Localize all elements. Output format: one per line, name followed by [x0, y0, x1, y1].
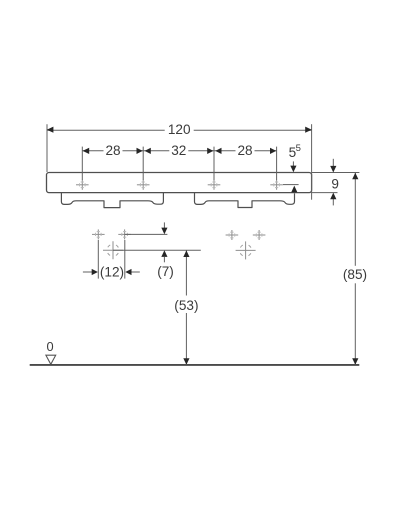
dimension 120: extension line right	[311, 124, 313, 200]
dimension (12): left arrow	[83, 271, 92, 273]
dimension (53): bottom arrowhead	[183, 358, 189, 365]
dimension (85): top arrowhead	[352, 173, 358, 180]
tap hole 2	[137, 180, 150, 190]
datum triangle	[46, 355, 56, 364]
svg-text:28: 28	[105, 143, 120, 158]
dimension 9: down arrow	[332, 159, 334, 166]
dim 32/28 arrowhead pair at hole 3	[207, 148, 213, 154]
svg-text:32: 32	[171, 143, 186, 158]
svg-text:28: 28	[237, 143, 252, 158]
svg-text:0: 0	[46, 339, 53, 354]
label 28 right	[236, 143, 255, 158]
left bowl profile	[61, 193, 163, 208]
dimension 120: right arrowhead	[305, 127, 312, 133]
dimension 5.5 down arrow	[292, 161, 294, 166]
mounting hole large right	[236, 241, 256, 259]
dimension 9: up arrow	[332, 199, 334, 205]
right bowl profile	[195, 193, 295, 208]
tap hole leader line	[283, 184, 299, 186]
mounting hole small right A	[226, 230, 239, 240]
dimension 28/32/28: line	[82, 150, 276, 152]
dimension (12): extension line left	[97, 240, 99, 279]
dimension 28/32/28: extension line 3	[213, 147, 215, 180]
dimension (12): right arrow	[131, 271, 140, 273]
svg-text:9: 9	[331, 176, 339, 191]
svg-text:120: 120	[168, 122, 191, 137]
mounting hole large left	[103, 241, 123, 259]
label 28 left	[104, 143, 123, 158]
dimension 28/32/28: extension line 4	[276, 147, 278, 180]
dimension (53): top arrowhead	[183, 250, 189, 257]
tap hole 4	[270, 180, 283, 190]
dimension (53): label	[172, 296, 201, 314]
svg-text:(7): (7)	[157, 264, 174, 279]
dimension 28/32/28: extension line 1	[81, 147, 83, 180]
svg-text:(53): (53)	[174, 298, 198, 313]
dim 28/32 arrowhead pair at hole 2	[137, 148, 143, 154]
floor line	[30, 364, 360, 366]
dimension 120: label	[165, 122, 194, 138]
mounting hole small left A	[92, 229, 105, 239]
large hole leader line	[113, 249, 201, 251]
dim 28 left arrowhead	[83, 148, 90, 154]
dimension 120: extension line left	[46, 124, 48, 172]
dimension 28/32/28: extension line 2	[142, 147, 144, 180]
dimension 120: left arrowhead	[47, 127, 54, 133]
dim 28 right arrowhead	[270, 148, 276, 154]
small hole leader line	[125, 233, 168, 235]
dimension 9: bottom reference line	[312, 192, 338, 194]
washbasin slab outline	[47, 173, 312, 193]
tap hole 1	[76, 180, 89, 190]
dimension 9: top reference line	[312, 172, 360, 174]
svg-text:5: 5	[296, 143, 301, 154]
mounting hole small right B	[253, 230, 266, 240]
svg-text:(12): (12)	[100, 264, 124, 279]
dimension (12): extension line right	[124, 240, 126, 279]
svg-text:(85): (85)	[343, 267, 367, 282]
dimension (85): label	[340, 266, 370, 284]
dimension (7): up arrow	[161, 250, 167, 257]
dimension 5.5 up arrow at tap hole axis	[291, 186, 297, 193]
dimension (53): vertical line	[185, 250, 187, 365]
label 32	[169, 143, 188, 158]
mounting hole small left B	[118, 229, 131, 239]
dimension (85): bottom arrowhead	[352, 358, 358, 365]
dimension (7): down arrow	[163, 222, 165, 228]
dimension 120: line	[47, 129, 312, 131]
tap hole 3	[208, 180, 221, 190]
dimension (85): vertical line	[354, 173, 356, 366]
